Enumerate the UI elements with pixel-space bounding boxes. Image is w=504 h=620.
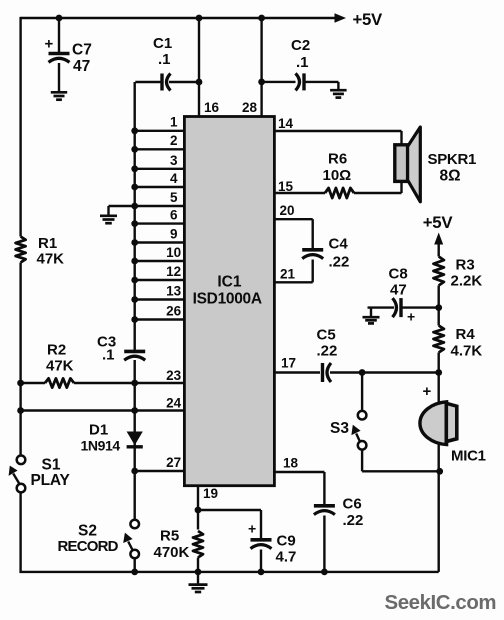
svg-text:15: 15 <box>278 179 294 194</box>
svg-text:10Ω: 10Ω <box>323 167 352 184</box>
svg-text:.22: .22 <box>317 343 338 360</box>
svg-text:S1: S1 <box>42 457 61 474</box>
svg-text:17: 17 <box>281 356 296 371</box>
svg-text:20: 20 <box>280 203 295 218</box>
svg-text:R6: R6 <box>328 151 347 168</box>
svg-text:21: 21 <box>280 267 296 282</box>
svg-text:19: 19 <box>203 486 218 501</box>
svg-text:+: + <box>45 36 54 53</box>
svg-text:47K: 47K <box>37 251 65 268</box>
svg-text:13: 13 <box>166 284 182 299</box>
svg-text:+5V: +5V <box>353 10 384 29</box>
svg-text:R5: R5 <box>160 528 179 545</box>
svg-text:47: 47 <box>390 282 407 299</box>
svg-text:S3: S3 <box>330 420 349 437</box>
svg-text:+: + <box>407 309 415 325</box>
svg-text:10: 10 <box>166 245 181 260</box>
svg-text:28: 28 <box>242 100 258 115</box>
svg-text:D1: D1 <box>89 422 108 439</box>
svg-text:24: 24 <box>166 396 182 411</box>
svg-text:ISD1000A: ISD1000A <box>193 291 262 308</box>
svg-text:IC1: IC1 <box>217 274 242 291</box>
svg-text:R1: R1 <box>38 235 57 252</box>
svg-text:1: 1 <box>170 115 178 130</box>
svg-text:C9: C9 <box>277 533 296 550</box>
svg-text:470K: 470K <box>154 544 190 561</box>
svg-text:12: 12 <box>166 264 181 279</box>
svg-text:14: 14 <box>278 116 294 131</box>
svg-text:2.2K: 2.2K <box>451 273 483 290</box>
svg-text:47: 47 <box>73 58 90 75</box>
svg-text:+: + <box>248 521 256 537</box>
svg-text:2: 2 <box>170 133 178 148</box>
svg-text:16: 16 <box>204 100 220 115</box>
svg-text:.1: .1 <box>158 51 171 68</box>
svg-text:C7: C7 <box>72 42 92 59</box>
svg-text:SPKR1: SPKR1 <box>428 151 477 168</box>
svg-text:.1: .1 <box>296 54 309 71</box>
svg-text:18: 18 <box>283 456 299 471</box>
svg-text:5: 5 <box>170 190 178 205</box>
svg-text:+: + <box>423 383 432 400</box>
svg-text:R3: R3 <box>456 257 475 274</box>
svg-text:3: 3 <box>170 153 178 168</box>
svg-text:23: 23 <box>166 368 182 383</box>
svg-text:47K: 47K <box>46 358 74 375</box>
svg-text:+5V: +5V <box>423 213 454 232</box>
svg-text:C4: C4 <box>329 236 349 253</box>
svg-text:RECORD: RECORD <box>58 538 119 555</box>
svg-text:6: 6 <box>170 208 178 223</box>
svg-text:MIC1: MIC1 <box>451 448 486 465</box>
svg-text:.1: .1 <box>102 347 115 364</box>
svg-text:9: 9 <box>170 227 178 242</box>
svg-text:C6: C6 <box>343 496 362 513</box>
svg-text:.22: .22 <box>343 512 364 529</box>
svg-text:C5: C5 <box>317 327 336 344</box>
svg-text:8Ω: 8Ω <box>440 168 461 185</box>
svg-text:S2: S2 <box>78 523 97 540</box>
svg-text:4.7K: 4.7K <box>451 343 483 360</box>
svg-text:C1: C1 <box>153 35 172 52</box>
svg-text:PLAY: PLAY <box>31 472 71 489</box>
svg-text:4: 4 <box>170 171 178 186</box>
svg-text:4.7: 4.7 <box>276 549 297 566</box>
svg-text:R4: R4 <box>456 326 476 343</box>
svg-text:26: 26 <box>166 304 182 319</box>
svg-text:R2: R2 <box>47 342 66 359</box>
svg-text:C2: C2 <box>291 37 310 54</box>
svg-text:27: 27 <box>166 455 181 470</box>
svg-text:1N914: 1N914 <box>81 438 121 454</box>
svg-text:.22: .22 <box>329 254 350 271</box>
svg-text:C8: C8 <box>389 266 408 283</box>
svg-text:SeekIC.com: SeekIC.com <box>385 592 497 614</box>
